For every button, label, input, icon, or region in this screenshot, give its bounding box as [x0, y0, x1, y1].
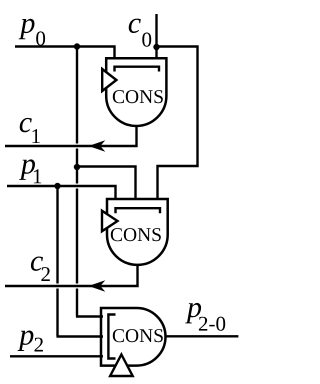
- U3 buffer triangle: [110, 355, 133, 377]
- junction dot c0 branch: [153, 44, 159, 50]
- wire p0 vertical rail segment 2 (c1 crossing to p0 junction): [76, 149, 78, 168]
- node p1 label: [19, 159, 41, 183]
- U1 buffer triangle: [102, 69, 116, 91]
- U2 buffer triangle: [102, 211, 118, 232]
- U3 CONS text: [113, 329, 163, 342]
- wire U3 output p2-0: [165, 335, 238, 337]
- wire p2 horizontal into cell U3 bottom input: [10, 355, 103, 357]
- wire U2 output down and left to c2: [5, 264, 138, 286]
- node p0 label: [19, 19, 45, 46]
- junction dot p0 rail to U2 branch: [74, 164, 80, 170]
- CONS cell U1 body: [106, 58, 166, 126]
- wire U1 output down and left to c1: [5, 125, 137, 146]
- wire p0 vertical rail segment 1 (p0 dot to c1 crossing): [76, 47, 78, 144]
- wire p0 vertical rail segment 3 (junction to p1 crossing): [76, 167, 78, 184]
- wire p1 vertical rail segment 2 (c2 crossing to bend): [56, 289, 58, 337]
- wire p0 vertical rail segment 4 (p1 crossing to c2 crossing): [76, 189, 78, 284]
- arrowhead on c2 wire: [89, 280, 106, 291]
- wire p0 vertical rail segment 5 (c2 crossing to bend): [76, 289, 78, 317]
- CONS cell U2 body: [107, 199, 168, 265]
- wire p1 vertical rail segment 1 (dot to c2 crossing): [56, 186, 58, 284]
- wire c0 vertical into cell U1 top-right input: [155, 14, 157, 59]
- node p2-0 label: [185, 303, 225, 331]
- arrowhead on c1 wire: [89, 140, 106, 151]
- wire p0 horizontal into cell U1 top-left input: [15, 47, 115, 60]
- junction dot p0 branch: [74, 43, 80, 49]
- U1 bracket symbol: [115, 67, 160, 72]
- U3 bracket symbol: [108, 315, 115, 359]
- wire p1 rail bend into cell U3 middle input: [57, 335, 104, 337]
- wire p0 rail bend into cell U3 top input: [76, 315, 103, 317]
- U2 CONS text: [111, 228, 161, 241]
- junction dot p1 branch: [54, 183, 60, 189]
- wire c0 branch right rail into cell U2 right input: [157, 47, 198, 201]
- node p2 label: [18, 331, 43, 352]
- U1 CONS text: [113, 90, 163, 103]
- wire p0 branch into cell U2 middle input: [77, 167, 136, 201]
- U2 bracket symbol: [116, 208, 161, 213]
- node c1 label: [20, 118, 40, 143]
- CONS cell U3 body: [101, 308, 166, 366]
- node c2 label: [31, 257, 50, 282]
- node c0 label: [129, 19, 152, 47]
- wire p1 horizontal into cell U2 top-left input: [7, 186, 116, 200]
